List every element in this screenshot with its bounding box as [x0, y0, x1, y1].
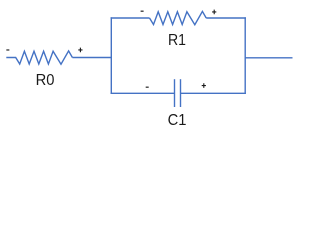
wire top rail left [111, 17, 150, 19]
label R1 [168, 33, 186, 49]
wire output [245, 57, 292, 59]
wire bottom rail right [181, 92, 246, 94]
label + (C1 positive) [202, 83, 206, 88]
label R0 [35, 73, 54, 89]
wire right bus (node B vertical) [244, 17, 246, 94]
label - (R0 negative) [6, 49, 9, 50]
capacitor C1 [175, 79, 181, 107]
wire top rail right [206, 17, 246, 19]
label - (C1 negative) [146, 87, 149, 88]
label + (R1 positive) [212, 10, 216, 15]
resistor R1 [150, 11, 207, 24]
label + (R0 positive) [78, 48, 82, 53]
wire bottom rail left [111, 92, 175, 94]
label - (R1 negative) [141, 11, 144, 12]
resistor R0 [6, 51, 72, 64]
wire left bus (node A vertical) [110, 17, 112, 94]
wire R0 to node A [72, 57, 111, 59]
label C1 [167, 113, 186, 129]
